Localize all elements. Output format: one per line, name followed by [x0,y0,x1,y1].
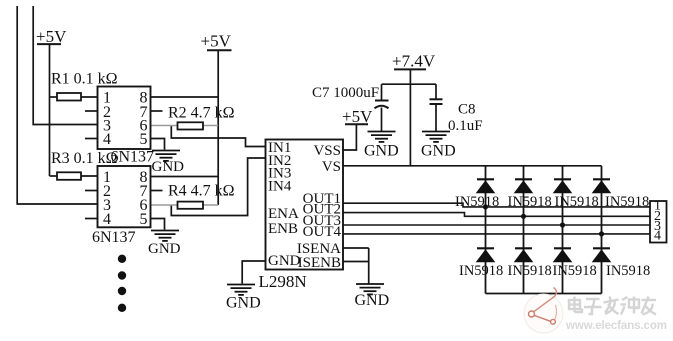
junction dot OUT3/column3 [560,222,565,227]
+5V rail right vertical (over U1/U2) [217,50,219,205]
ground at U3 GND [226,285,261,312]
wire VS bus to diode bridge [343,165,602,167]
svg-text:C8: C8 [458,102,476,118]
wire U3 GND pin to ground [242,261,265,284]
wire U1 pin8 to +5V rail [151,96,219,98]
U3 right pin labels [297,143,342,271]
ground under U2 pin5 [148,231,181,258]
svg-text:GND: GND [152,159,185,175]
svg-text:IN5918: IN5918 [508,194,552,210]
wire +7.4V drop to VS [409,69,411,165]
wire U2 pin7 stub [151,190,163,192]
svg-text:4: 4 [654,229,661,244]
svg-text:6N137: 6N137 [92,229,136,246]
wire OUT3 [343,224,650,226]
ground under U1 pin5 [152,151,185,176]
svg-text:GND: GND [148,241,181,257]
gray feed wire U2 pin6 through R4 to +5V [151,204,219,206]
resistor R3 [57,172,81,180]
svg-text:ENA: ENA [268,206,299,222]
opto-coupler U1 6N137 body [98,87,151,150]
ellipsis dots (more channels) [118,255,126,312]
wire VSS to +5V [343,124,356,150]
wire U1 pin6 output to IN1 [171,126,265,147]
svg-text:ENB: ENB [268,221,298,237]
svg-text:5: 5 [140,211,148,228]
svg-text:5: 5 [140,131,148,148]
svg-text:OUT4: OUT4 [303,224,342,240]
resistor R2 [178,122,204,129]
wire U2 pin4 stub [85,218,98,220]
wire U2 pin6 output to IN2 [171,158,265,216]
svg-text:IN5918: IN5918 [555,194,599,210]
svg-text:IN5918: IN5918 [459,263,503,279]
svg-text:R4 4.7 kΩ: R4 4.7 kΩ [168,183,235,200]
power +5V left [36,27,67,46]
connector J1 [650,201,667,243]
svg-text:6N137: 6N137 [111,149,155,166]
U2 pin numbers [103,169,148,228]
svg-text:GND: GND [268,253,301,269]
U3 left pin labels [268,140,301,269]
svg-text:R3 0.1 kΩ: R3 0.1 kΩ [51,150,118,167]
watermark chinese text 电子发烧友 [569,297,656,315]
svg-text:ISENB: ISENB [298,255,341,271]
svg-text:4: 4 [103,131,111,148]
gray feed wire U1 pin6 through R2 to +5V [151,125,219,127]
svg-text:IN5918: IN5918 [508,263,552,279]
svg-text:IN5918: IN5918 [553,263,597,279]
column 3 wire [562,166,564,294]
svg-text:IN4: IN4 [268,179,292,195]
svg-text:www.elecfans.com: www.elecfans.com [565,320,667,332]
+5V rail left vertical drop [49,44,51,176]
wire U1 pin2 stub [85,110,98,112]
wire U1 pin4 stub [85,138,98,140]
svg-text:IN5918: IN5918 [606,263,650,279]
diode D8 bottom [592,248,612,262]
svg-text:+5V: +5V [201,32,232,51]
wire ISENA/ISENB to ground [343,248,369,284]
svg-text:R2 4.7 kΩ: R2 4.7 kΩ [168,105,235,122]
U1 pin numbers [103,90,148,149]
labels IN5918 bottom row [459,263,650,279]
svg-text:VS: VS [322,159,341,175]
wire U2 pin2 stub [85,190,98,192]
watermark logo circle [524,288,563,334]
svg-text:L298N: L298N [259,272,307,291]
diode column verticals [486,166,602,294]
svg-text:+5V: +5V [342,107,373,126]
wire U1 pin7 stub [151,110,163,112]
wire U2 pin8 to +5V rail [151,176,219,178]
ground at ISEN [355,284,390,309]
column 1 wire [485,166,487,294]
wire R1 to U1 pin1 [81,96,98,98]
power +5V at VSS [342,107,373,126]
diode D6 bottom [514,248,534,262]
resistor R1 [57,93,81,101]
diode D4 top [592,179,612,193]
svg-text:4: 4 [103,211,111,228]
svg-text:IN5918: IN5918 [455,194,499,210]
driver U3 L298N body [266,140,344,270]
svg-text:C7 1000uF: C7 1000uF [312,85,379,101]
labels IN5918 top row [455,194,649,210]
svg-text:GND: GND [421,143,456,160]
power +7.4V [392,52,436,71]
svg-text:GND: GND [355,292,390,309]
diode D1 top [476,179,496,193]
wire OUT4 [343,233,650,235]
wire U1 pin5 to ground [151,139,165,150]
svg-text:GND: GND [364,143,399,160]
junction dot OUT1/column1 [483,204,488,209]
bottom rail of diode bridge [486,293,602,295]
capacitor C8 0.1uF [430,84,443,131]
wire +5V to R1 [50,96,58,98]
column 2 wire [523,166,525,294]
ground under C8 [421,132,456,160]
diode D2 top [514,179,534,193]
opto-coupler U2 6N137 body [98,166,151,227]
wire +5V to R3 [50,175,58,177]
wire R3 to U2 pin1 [81,175,98,177]
diode D7 bottom [553,248,573,262]
wire capacitor branch bus [382,83,437,85]
diode D5 bottom [476,248,496,262]
svg-text:VSS: VSS [313,143,341,159]
svg-text:IN5918: IN5918 [605,194,649,210]
column 4 wire [601,166,603,294]
ground under C7 [364,132,399,160]
capacitor C7 (polarized 1000uF) [375,84,389,131]
svg-text:R1 0.1 kΩ: R1 0.1 kΩ [51,71,118,88]
resistor R4 [178,202,204,209]
wire input line 2 (second vertical to U1 pin3) [33,6,97,125]
wire input line 1 (left vertical to U2 pin3) [17,6,97,204]
svg-text:+7.4V: +7.4V [392,52,436,71]
svg-text:0.1uF: 0.1uF [448,118,483,134]
svg-text:GND: GND [226,295,261,312]
wire OUT1 [343,203,650,207]
junction dot OUT2/column2 [521,214,526,219]
junction dot OUT4/column4 [599,231,604,236]
J1 pin numbers [654,199,661,244]
wire OUT2 [343,213,650,217]
diode D3 top [553,179,573,193]
power +5V right [201,32,232,51]
wire U2 pin5 to ground [151,219,165,230]
